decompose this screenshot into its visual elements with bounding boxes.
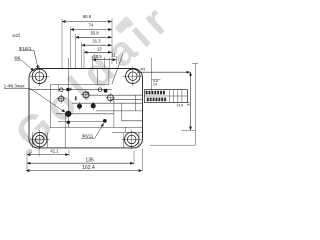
svg-text:13: 13 <box>97 46 102 51</box>
right top short ext <box>192 63 198 65</box>
filled port T1 <box>77 102 82 111</box>
filled hole 6.3max <box>65 111 71 117</box>
tiny tick port <box>70 88 71 91</box>
mounting hole top-right <box>123 66 143 86</box>
top dim extension lines <box>62 19 117 69</box>
right view extension vertical x151 <box>151 58 153 91</box>
label phi6/11 <box>81 123 104 138</box>
tiny bar port <box>75 96 76 100</box>
small circle node x61 <box>60 88 64 92</box>
top dim row 4 (31.3) <box>82 39 113 46</box>
label 1-phi6.3max <box>4 84 66 113</box>
svg-text:11: 11 <box>28 149 33 154</box>
svg-text:10.5: 10.5 <box>94 54 103 59</box>
small dot lower <box>67 121 70 124</box>
mounting hole bottom-right <box>122 130 142 150</box>
mounting hole top-left <box>30 67 50 87</box>
right top dim line <box>137 71 190 73</box>
svg-text:Φ22: Φ22 <box>12 32 21 38</box>
right ext y145 <box>150 144 195 146</box>
main body outline <box>29 69 143 148</box>
filled port T2 <box>91 102 96 111</box>
svg-text:162.4: 162.4 <box>82 165 95 171</box>
svg-text:Φ9: Φ9 <box>141 68 146 72</box>
svg-text:Φ6/11: Φ6/11 <box>82 133 94 138</box>
mounting hole bottom-left <box>30 130 50 150</box>
watermark Goldair <box>6 0 181 157</box>
right ext y130 <box>181 129 195 131</box>
bottom dim row 11 / 41.1 <box>27 149 69 155</box>
label phi18 <box>19 46 39 69</box>
top dim row 1 (86.9) <box>62 14 112 22</box>
right connector block <box>145 90 188 108</box>
svg-text:Φ18/1: Φ18/1 <box>19 46 32 51</box>
small dot lower right <box>103 119 107 123</box>
svg-text:74: 74 <box>89 23 94 28</box>
top dim row 5 (13) <box>84 46 112 52</box>
bottom dim row 162.4 <box>26 165 142 171</box>
right view small box line <box>152 79 161 81</box>
svg-text:55.8: 55.8 <box>91 31 100 36</box>
right far extension vertical <box>194 64 196 146</box>
label phi6 <box>14 56 34 72</box>
watermark extra blob <box>114 16 132 34</box>
port P circle <box>81 90 91 100</box>
small circle node x100 <box>97 88 103 92</box>
top dim row 6 (10.5 / 11) <box>93 52 117 59</box>
top dim row 3 (55.8) <box>76 31 113 38</box>
svg-text:Φ6: Φ6 <box>14 56 21 61</box>
svg-text:14: 14 <box>153 83 157 87</box>
svg-text:135: 135 <box>85 157 94 163</box>
body interior vertical lines <box>32 58 138 148</box>
body interior horizontal lines <box>29 85 142 133</box>
bottom dim row 135 <box>27 157 134 163</box>
diagonal leader top-right <box>112 54 123 84</box>
bottom dim extension lines <box>27 148 142 172</box>
small node dot upper <box>66 88 70 92</box>
svg-text:14.5: 14.5 <box>177 104 184 108</box>
svg-text:86.9: 86.9 <box>83 14 92 19</box>
svg-text:31.3: 31.3 <box>92 39 101 44</box>
svg-text:41.1: 41.1 <box>50 149 59 154</box>
svg-text:1-Φ6.3max: 1-Φ6.3max <box>4 84 26 89</box>
right vertical dim line <box>190 72 192 130</box>
port A circle <box>56 94 66 104</box>
port B circle <box>106 93 116 103</box>
top dim row 2 (74) <box>71 23 113 30</box>
small node dot right <box>104 89 108 93</box>
